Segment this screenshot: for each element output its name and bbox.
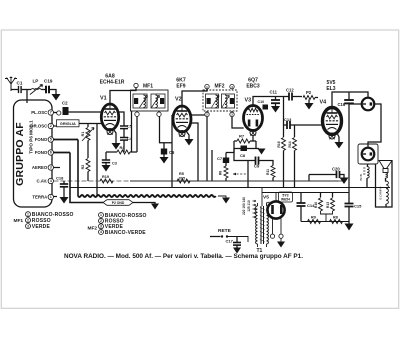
svg-text:V2: V2 <box>175 97 182 103</box>
wire TERRA stub <box>54 196 58 198</box>
capacitor C14 <box>300 193 302 204</box>
terminal V5 fil left <box>270 234 274 238</box>
svg-text:BIANCO-VERDE: BIANCO-VERDE <box>105 230 146 236</box>
svg-text:BOB.: BOB. <box>359 173 363 180</box>
tube V2 <box>173 106 191 132</box>
wire bus B <box>70 187 390 189</box>
wire pin2 to griglia <box>54 125 57 127</box>
svg-text:MF2: MF2 <box>88 226 98 232</box>
svg-text:R14: R14 <box>288 141 292 147</box>
svg-text:TERRA: TERRA <box>32 195 47 200</box>
ground (C15) <box>345 224 354 231</box>
wire R2 to AVC bus <box>87 172 89 182</box>
svg-text:7: 7 <box>50 111 52 115</box>
wire J1 left <box>349 103 362 105</box>
svg-text:P2 OND: P2 OND <box>112 201 125 205</box>
wire R1 to R2 <box>87 141 89 159</box>
svg-text:125 110: 125 110 <box>247 200 251 212</box>
transformer T1 core <box>260 206 262 244</box>
transformer MF1 box <box>131 90 169 111</box>
svg-text:2: 2 <box>50 124 52 128</box>
svg-text:C15: C15 <box>354 204 362 209</box>
svg-text:EBC3: EBC3 <box>246 84 260 90</box>
wire P2OND to ground <box>133 203 155 204</box>
tube V3 <box>244 106 263 131</box>
transformer MF2 box <box>203 90 237 111</box>
svg-text:FONO: FONO <box>35 137 48 142</box>
svg-text:OR.OSC: OR.OSC <box>30 124 47 129</box>
taps arrows <box>253 200 257 202</box>
svg-text:WE54: WE54 <box>281 198 290 202</box>
node 8 terminal <box>57 111 61 115</box>
svg-text:GRIGLIA: GRIGLIA <box>60 122 76 126</box>
svg-text:AEREO: AEREO <box>32 165 48 170</box>
svg-text:4: 4 <box>50 179 52 183</box>
svg-text:3: 3 <box>100 225 102 229</box>
capacitor C6 <box>163 143 165 149</box>
svg-text:P2: P2 <box>306 90 312 95</box>
capacitor C13 <box>284 124 287 126</box>
ground (R7/C8) <box>258 149 266 155</box>
wire V5 filament right <box>280 219 282 235</box>
wire shielded lead pin5 <box>54 139 79 141</box>
wire V2 screen down <box>190 123 198 181</box>
svg-text:C20: C20 <box>332 167 340 172</box>
svg-text:C19: C19 <box>44 79 53 84</box>
svg-text:2: 2 <box>27 218 29 222</box>
MF2 primary cell <box>206 94 219 108</box>
svg-text:MF1: MF1 <box>143 84 153 90</box>
ground (V4) <box>335 142 344 149</box>
svg-text:R16: R16 <box>277 141 281 147</box>
wire V1 top cap <box>110 88 136 104</box>
wire bus B down to T1 <box>261 188 263 207</box>
capacitor C3 <box>105 152 107 160</box>
wire MF2-3 to V3 grid <box>232 117 244 128</box>
svg-text:C2: C2 <box>62 101 68 106</box>
svg-text:1: 1 <box>27 212 29 216</box>
terminal MF2 2 <box>206 111 208 112</box>
ground (C17) <box>233 248 241 254</box>
svg-text:R1: R1 <box>81 132 85 137</box>
wire V1 cathode line <box>96 124 98 197</box>
svg-text:VERDE: VERDE <box>32 224 51 230</box>
speaker cone <box>379 161 392 169</box>
antenna <box>10 83 12 91</box>
wire MF2-2 down to AVC bus <box>206 117 208 181</box>
svg-text:V3: V3 <box>245 98 252 104</box>
wire AEREO stub <box>54 167 61 169</box>
svg-text:R11: R11 <box>266 169 270 175</box>
svg-text:220 160 140: 220 160 140 <box>242 197 246 215</box>
wire V1 cathode to ground <box>114 130 116 143</box>
wire pin7 <box>54 112 59 114</box>
svg-text:2: 2 <box>100 219 102 223</box>
wire J1 top <box>349 92 368 98</box>
terminal MF2 3 <box>231 111 233 112</box>
terminal V5 fil right <box>279 234 283 238</box>
MF2 secondary cell <box>222 94 235 108</box>
socket J1 <box>362 98 375 111</box>
terminal MF2 4 <box>230 84 234 88</box>
terminal MF1 bottom-right <box>158 111 160 112</box>
switch P2 OND <box>103 200 133 206</box>
wire V2 left vertical <box>171 115 173 188</box>
node antenna junction <box>26 90 28 104</box>
capacitor C5 <box>119 112 124 126</box>
svg-text:V4: V4 <box>320 100 327 106</box>
socket J2 <box>362 148 375 161</box>
svg-text:V1: V1 <box>100 96 107 102</box>
svg-text:R13: R13 <box>326 202 330 208</box>
ground (shield) <box>222 198 230 204</box>
wire T1 sec bottom <box>266 244 268 247</box>
wire R7 loop <box>233 141 235 149</box>
wire RETE <box>210 236 221 238</box>
wire V5 filament left <box>272 219 274 235</box>
ground (C20) <box>340 178 349 185</box>
ground (V1) <box>112 143 121 150</box>
ground (C18) <box>60 197 69 204</box>
svg-text:5: 5 <box>50 138 52 142</box>
capacitor C8 <box>241 146 248 152</box>
ground (V5 fil) <box>277 242 285 248</box>
wire V4 top <box>332 92 349 107</box>
svg-text:R8: R8 <box>219 171 223 175</box>
svg-text:3: 3 <box>50 166 52 170</box>
ground (P2) <box>305 103 314 110</box>
wire J1 right <box>368 104 381 148</box>
svg-text:C18: C18 <box>56 176 64 181</box>
transformer T1 secondary <box>267 206 269 244</box>
svg-text:LP: LP <box>33 79 39 84</box>
wire V2 top cap <box>182 89 207 106</box>
wire speaker right <box>386 161 392 208</box>
svg-text:1: 1 <box>50 195 52 199</box>
terminal MF1 top <box>134 83 138 87</box>
wire MF1 box left down <box>131 111 133 152</box>
MF1 secondary cell <box>151 94 165 108</box>
socket J2 box <box>358 144 378 164</box>
svg-text:C1: C1 <box>17 81 23 86</box>
svg-text:3: 3 <box>27 224 29 228</box>
wire V2 cathode ground <box>186 131 189 139</box>
wire fil terminals <box>280 238 282 241</box>
capacitor C15 <box>345 203 354 205</box>
wire V3 to detector <box>252 136 254 141</box>
ground (AVC end) <box>338 180 344 182</box>
wire bus C <box>301 221 349 223</box>
svg-text:MF1: MF1 <box>14 218 24 224</box>
capacitor C4 <box>123 129 125 138</box>
capacitor C11 <box>275 97 277 101</box>
wire T1 primary top <box>257 203 259 206</box>
tube V1 <box>101 104 118 130</box>
wire junction x212 <box>211 150 213 181</box>
svg-text:6: 6 <box>50 151 52 155</box>
label GRIGLIA <box>57 120 80 127</box>
wire shielded bus <box>78 195 216 197</box>
wire T1 sec top to V5 <box>267 202 270 206</box>
ground (V2) <box>185 139 194 146</box>
svg-text:R9: R9 <box>311 215 316 219</box>
transformer T1 primary <box>256 206 258 244</box>
coil T2 secondary <box>386 181 388 204</box>
capacitor C9 <box>248 160 255 162</box>
wire pin7 to V1 grid <box>69 111 102 113</box>
wire MF1 left terminal down <box>136 116 138 152</box>
svg-text:GRUPPO AF: GRUPPO AF <box>14 122 26 186</box>
tube V4 <box>323 108 342 135</box>
block GRUPPO AF tuner unit <box>14 100 53 207</box>
svg-text:C17: C17 <box>226 239 234 244</box>
svg-text:MF2: MF2 <box>215 84 225 90</box>
svg-text:C8: C8 <box>240 153 246 158</box>
svg-text:EF9: EF9 <box>176 84 185 90</box>
ground (C3) <box>102 165 111 172</box>
MF1 primary cell <box>133 94 147 108</box>
svg-text:C10: C10 <box>258 100 265 104</box>
ground (C19) <box>52 94 61 101</box>
wire V2 grid left <box>172 114 173 116</box>
capacitor C7 <box>225 153 227 158</box>
wire bus B+ rail <box>262 192 349 194</box>
svg-text:C12: C12 <box>286 88 294 93</box>
svg-text:NOVA RADIO. — Mod. 500 Af. — P: NOVA RADIO. — Mod. 500 Af. — Per valori … <box>64 253 303 260</box>
label 5Y3 WE54 <box>279 192 293 202</box>
svg-text:C9: C9 <box>254 164 260 169</box>
svg-text:EL3: EL3 <box>326 86 335 92</box>
coil T2 primary <box>386 173 388 178</box>
svg-text:1: 1 <box>100 213 102 217</box>
wire detector down <box>234 149 248 161</box>
wire V2 plate to MF2 <box>191 114 205 116</box>
svg-text:RETE: RETE <box>218 228 232 234</box>
terminal MF2 1 <box>205 84 209 88</box>
wire griglia to V1 <box>79 123 102 125</box>
svg-text:4: 4 <box>100 230 102 234</box>
terminal MF1 bottom-left <box>136 111 138 112</box>
svg-text:V5: V5 <box>263 195 269 201</box>
svg-text:C7: C7 <box>217 156 223 161</box>
svg-text:FONO: FONO <box>35 150 48 155</box>
svg-text:C11: C11 <box>270 90 278 95</box>
wire AVC bus <box>54 180 131 182</box>
svg-text:R7: R7 <box>239 134 245 139</box>
svg-text:R8: R8 <box>333 215 338 219</box>
ground (P2 OND) <box>151 204 159 210</box>
ground (C6) <box>160 157 169 164</box>
wire V5 plate to rail <box>275 193 277 202</box>
wire V4 cathode ground <box>337 133 339 142</box>
capacitor C20 <box>309 174 336 176</box>
svg-text:R2: R2 <box>81 165 85 170</box>
ground (C11) <box>271 106 280 113</box>
tube V5 rectifier <box>267 201 284 218</box>
switch link dashed <box>233 173 247 175</box>
svg-text:C3: C3 <box>112 162 117 166</box>
svg-text:PL.OSC: PL.OSC <box>31 110 47 115</box>
wire V3 plate top <box>253 97 289 106</box>
wire shielded lead pin6 <box>54 152 71 154</box>
wire C12 node down <box>283 97 285 126</box>
wire MF1 right terminal down <box>160 116 173 142</box>
wire T1 primary bottom <box>257 244 259 247</box>
svg-text:C.AV.: C.AV. <box>36 179 47 184</box>
svg-text:ECH4-E1R: ECH4-E1R <box>100 80 125 86</box>
svg-text:R10: R10 <box>314 202 318 208</box>
